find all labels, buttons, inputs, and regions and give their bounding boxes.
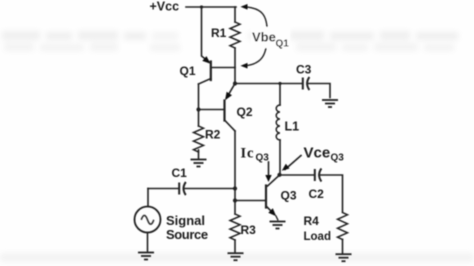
svg-text:Q1: Q1 bbox=[276, 39, 290, 50]
svg-text:+Vcc: +Vcc bbox=[150, 0, 180, 14]
svg-text:Load: Load bbox=[304, 231, 331, 243]
svg-text:Q3: Q3 bbox=[331, 153, 345, 164]
svg-text:R2: R2 bbox=[205, 128, 221, 142]
svg-text:Source: Source bbox=[166, 227, 208, 242]
svg-text:Ic: Ic bbox=[241, 146, 255, 162]
svg-text:Q3: Q3 bbox=[256, 153, 270, 164]
svg-text:R3: R3 bbox=[241, 223, 257, 237]
svg-text:Signal: Signal bbox=[166, 213, 205, 228]
svg-text:C3: C3 bbox=[296, 63, 312, 77]
svg-text:R4: R4 bbox=[304, 214, 320, 228]
svg-text:Vce: Vce bbox=[304, 145, 331, 162]
svg-text:C2: C2 bbox=[309, 187, 325, 201]
svg-text:Q3: Q3 bbox=[281, 188, 297, 202]
svg-text:C1: C1 bbox=[172, 166, 188, 180]
svg-text:R1: R1 bbox=[211, 26, 227, 40]
svg-text:Vbe: Vbe bbox=[252, 30, 276, 45]
svg-text:Q1: Q1 bbox=[180, 64, 196, 78]
svg-text:Q2: Q2 bbox=[237, 105, 253, 119]
svg-text:L1: L1 bbox=[285, 120, 300, 134]
